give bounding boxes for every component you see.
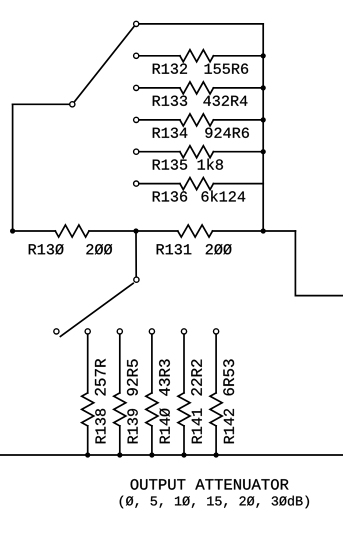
label refdes R130 bbox=[29, 244, 64, 255]
resistor R136 bbox=[180, 178, 214, 190]
junction left wire bbox=[10, 228, 15, 233]
wire ground bus bbox=[0, 454, 343, 456]
junction R141/ground bus bbox=[181, 452, 186, 457]
junction center node bbox=[133, 228, 138, 233]
resistor R131 bbox=[178, 225, 213, 237]
wire right bus vertical bbox=[262, 24, 264, 231]
node contact R140 bbox=[149, 329, 154, 334]
wire contact to R133 bbox=[139, 87, 180, 89]
resistor R135 bbox=[180, 146, 214, 158]
node contact R142 bbox=[214, 329, 219, 334]
resistor R141 bbox=[178, 393, 190, 426]
wire center node to S2 pole bbox=[135, 231, 137, 277]
label refdes R140 bbox=[159, 408, 170, 443]
wire R132 to bus bbox=[213, 55, 263, 57]
wire R139 to ground bus bbox=[119, 426, 121, 455]
node contact R134 bbox=[134, 117, 139, 122]
node contact R132 bbox=[134, 53, 139, 58]
wire contact to R132 bbox=[139, 55, 180, 57]
label value 22R2 (R141) bbox=[191, 360, 202, 396]
label refdes R133 bbox=[153, 96, 187, 106]
label refdes R142 bbox=[224, 409, 234, 443]
label refdes R135 bbox=[153, 159, 187, 169]
node contact R135 bbox=[134, 149, 139, 154]
wire S1 pole to left corner bbox=[13, 103, 70, 105]
label title OUTPUT ATTENUATOR bbox=[131, 479, 289, 490]
junction R132/bus bbox=[261, 53, 266, 58]
node contact R133 bbox=[134, 85, 139, 90]
wire contact to R134 bbox=[139, 119, 180, 121]
label refdes R132 bbox=[153, 64, 187, 74]
resistor R140 bbox=[146, 393, 158, 426]
resistor R142 bbox=[210, 393, 222, 426]
wire R142 to ground bus bbox=[215, 426, 217, 455]
switch S2 arm bbox=[60, 283, 133, 336]
wire R138 to ground bus bbox=[87, 426, 89, 455]
resistor R138 bbox=[82, 393, 94, 426]
junction R135/bus bbox=[261, 149, 266, 154]
node contact R141 bbox=[181, 329, 186, 334]
resistor R134 bbox=[180, 114, 214, 126]
label subtitle attenuation steps bbox=[120, 496, 309, 509]
switch S1 pole contact bbox=[70, 102, 75, 107]
wire top contact to right bus bbox=[139, 23, 263, 25]
label value 200 (R131) bbox=[206, 244, 232, 255]
label value 6R53 (R142) bbox=[223, 359, 234, 395]
wire contact to R140 bbox=[151, 334, 153, 393]
resistor R132 bbox=[180, 50, 214, 62]
label value 1k8 bbox=[198, 159, 223, 170]
label refdes R138 bbox=[95, 409, 105, 443]
wire output corner bbox=[295, 231, 343, 296]
switch S2 pole contact bbox=[134, 277, 139, 282]
wire R140 to ground bus bbox=[151, 426, 153, 455]
switch S1 arm bbox=[75, 26, 135, 101]
resistor R130 bbox=[55, 225, 89, 237]
resistor R133 bbox=[180, 82, 214, 94]
node contact R138 bbox=[85, 329, 90, 334]
junction R140/ground bus bbox=[149, 452, 154, 457]
label value 6k124 bbox=[202, 191, 246, 202]
node contact R139 bbox=[117, 329, 122, 334]
label refdes R136 bbox=[153, 191, 187, 201]
switch S1 top contact bbox=[134, 21, 139, 26]
label refdes R131 bbox=[157, 244, 192, 254]
junction R133/bus bbox=[261, 85, 266, 90]
wire contact to R141 bbox=[183, 334, 185, 393]
label value 43R3 (R140) bbox=[159, 359, 170, 395]
junction R138/ground bus bbox=[85, 452, 90, 457]
wire left vertical bbox=[12, 104, 14, 231]
label refdes R141 bbox=[192, 409, 202, 444]
resistor R139 bbox=[114, 393, 126, 426]
label refdes R139 bbox=[127, 409, 137, 443]
switch S2 open contact bbox=[54, 329, 59, 334]
wire contact to R139 bbox=[119, 334, 121, 393]
wire R131 to output bbox=[213, 230, 296, 232]
label value 432R4 bbox=[203, 96, 247, 106]
label value 924R6 bbox=[205, 128, 249, 138]
label value 155R6 bbox=[205, 64, 249, 74]
node contact R136 bbox=[134, 181, 139, 186]
label value 200 (R130) bbox=[86, 244, 112, 255]
label value 92R5 (R139) bbox=[127, 359, 138, 395]
wire R135 to bus bbox=[213, 151, 263, 153]
wire R136 to bus bbox=[213, 183, 263, 185]
wire R134 to bus bbox=[213, 119, 263, 121]
wire contact to R136 bbox=[139, 183, 180, 185]
junction R139/ground bus bbox=[117, 452, 122, 457]
wire main left segment bbox=[13, 230, 56, 232]
junction bus bottom bbox=[261, 228, 266, 233]
wire contact to R138 bbox=[87, 334, 89, 393]
wire R130 to center node bbox=[89, 230, 178, 232]
wire R133 to bus bbox=[213, 87, 263, 89]
junction R134/bus bbox=[261, 117, 266, 122]
wire contact to R142 bbox=[215, 334, 217, 393]
wire contact to R135 bbox=[139, 151, 180, 153]
label value 257R (R138) bbox=[95, 359, 106, 396]
wire R141 to ground bus bbox=[183, 426, 185, 455]
junction R142/ground bus bbox=[214, 452, 219, 457]
label refdes R134 bbox=[153, 128, 188, 138]
